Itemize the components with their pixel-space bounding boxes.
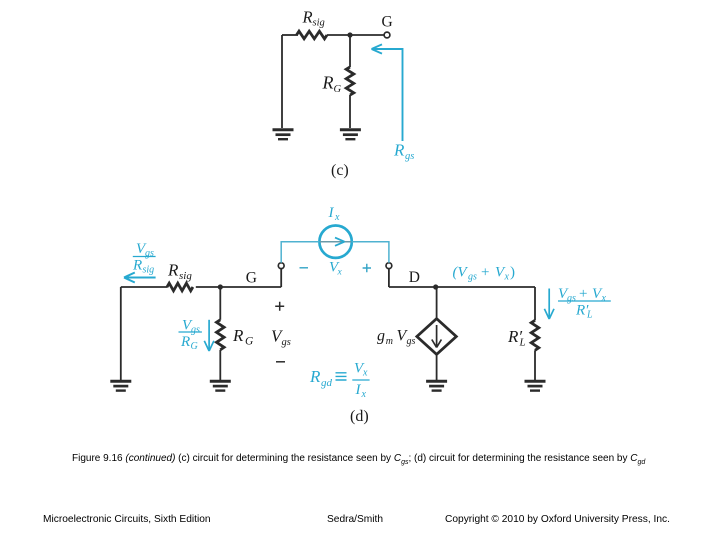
ground under R'_L (d) [525,381,546,390]
label R_gs (c) [393,141,414,163]
svg-text:D: D [409,269,420,286]
label plus of V_x (d) [363,264,371,272]
resistor R_sig (d) [167,283,193,291]
wire R_G to ground (c) [349,95,351,128]
wire left vertical down (d) [120,287,122,380]
svg-text:G: G [191,341,198,352]
svg-text:gs: gs [567,293,576,304]
svg-text:+: + [481,265,489,281]
circuit (c): wire from left corner to R_sig [282,34,298,36]
arrow inside diamond (d) [432,325,442,348]
label V_gs (d) [271,327,291,349]
label G node (d) [246,269,257,286]
label R'_L (d) [507,327,526,349]
resistor R_sig (c) [297,31,328,39]
test source I_x circle (d) [319,226,351,258]
ground under R_G (c) [340,130,361,139]
ground far left (d) [110,381,131,390]
svg-text:R: R [232,326,244,345]
svg-text:R: R [167,261,179,280]
svg-text:G: G [246,269,257,286]
current arrow V_gs/R_sig (d) [124,273,156,283]
svg-text:L: L [519,337,526,349]
label fraction (V_gs+V_x) over R'_L (d) [558,286,611,321]
resistor R_G (d) [217,320,225,350]
label G terminal (c) [382,14,393,31]
wire D to R'_L corner (d) [389,286,535,288]
label (d) [350,408,369,425]
label (c) [331,162,349,179]
svg-text:(d): (d) [350,408,369,425]
label I_x (d) [328,205,341,223]
wire R'_L to ground (d) [534,350,536,380]
wire down to R'_L (d) [534,287,536,320]
svg-text:sig: sig [313,18,325,29]
svg-text:gs: gs [407,336,416,347]
cyan wire right of source (d) [352,242,389,263]
node dot at G (d) [218,284,223,289]
svg-text:R: R [393,141,405,160]
svg-text:gd: gd [321,377,333,389]
svg-text:L: L [586,310,593,321]
current arrow (V_gs+V_x)/R'_L (d) [544,289,554,320]
R_gs looking-in arrow (c) [372,44,403,141]
svg-text:x: x [361,389,367,400]
svg-text:gs: gs [191,325,200,336]
svg-text:I: I [355,382,362,398]
footer center: authors [327,514,383,525]
node dot at D (d) [433,284,438,289]
label (V_gs + V_x) (d) [453,265,516,283]
svg-text:+: + [579,286,587,302]
svg-text:R: R [302,8,313,27]
svg-text:R: R [309,367,321,386]
svg-text:x: x [362,368,368,379]
svg-text:x: x [334,212,340,223]
resistor R_G (c) [346,67,354,95]
svg-text:R: R [180,334,190,350]
footer left: book title [43,514,211,525]
wire R_sig to G corner (d) [196,286,281,288]
label R_sig (c) [302,8,325,29]
terminal open circle G (d) [278,263,284,269]
dependent source g_m V_gs diamond (d) [417,319,456,355]
label fraction V_gs over R_G (d) [179,318,202,353]
svg-text:sig: sig [143,265,155,276]
svg-text:(c): (c) [331,162,349,179]
wire diamond to ground (d) [436,355,438,381]
label D node (d) [409,269,420,286]
svg-text:x: x [337,268,343,278]
wire node down to diamond (d) [436,287,438,318]
svg-text:): ) [510,265,515,281]
footer right: copyright [445,514,670,525]
cyan wire left of source (d) [281,242,319,263]
figure caption [72,453,645,466]
svg-text:g: g [377,328,385,345]
wire D terminal down (d) [388,269,390,287]
terminal G open circle (c) [384,32,390,38]
label plus of V_gs (d) [275,302,284,311]
wire up to G terminal (d) [280,269,282,287]
svg-text:gs: gs [282,337,291,348]
label R_gd equiv V_x/I_x (d) [309,361,370,401]
label R_sig (d) [167,261,192,283]
svg-text:x: x [601,293,607,304]
label g_m V_gs (d) [377,328,416,348]
wire left vertical (c) [281,35,283,128]
terminal open circle D (d) [386,263,392,269]
svg-text:sig: sig [179,270,192,282]
wire node to R_G (c) [349,35,351,67]
svg-text:x: x [504,272,510,283]
node junction dot (c) [347,32,352,37]
ground under diamond (d) [426,381,447,390]
current arrow V_gs/R_G (d) [204,320,214,351]
svg-text:G: G [245,336,254,348]
wire from R_sig to terminal G (c) [327,34,384,36]
svg-text:m: m [386,336,393,347]
svg-text:R: R [132,258,142,274]
svg-text:G: G [382,14,393,31]
label fraction V_gs over R_sig (d) [132,241,156,276]
svg-text:gs: gs [405,151,414,162]
svg-text:gs: gs [468,272,477,283]
ground under R_G (d) [210,381,231,390]
arrow inside I_x source (d) [320,238,351,246]
svg-text:gs: gs [145,248,154,259]
wire left segment (d) [121,286,168,288]
wire node G down to R_G (d) [219,287,221,320]
svg-text:G: G [334,84,342,95]
svg-text:(V: (V [453,265,469,281]
svg-text:I: I [328,205,335,221]
label R_G (c) [322,73,342,96]
resistor R'_L (d) [531,320,539,350]
label minus of V_x (d) [300,267,309,269]
wire R_G to ground (d) [219,350,221,380]
svg-text:R: R [322,73,334,93]
label R_G (d) [232,326,254,348]
label minus of V_gs (d) [276,361,285,363]
ground left (c) [273,130,294,139]
label V_x (d) [329,260,343,278]
